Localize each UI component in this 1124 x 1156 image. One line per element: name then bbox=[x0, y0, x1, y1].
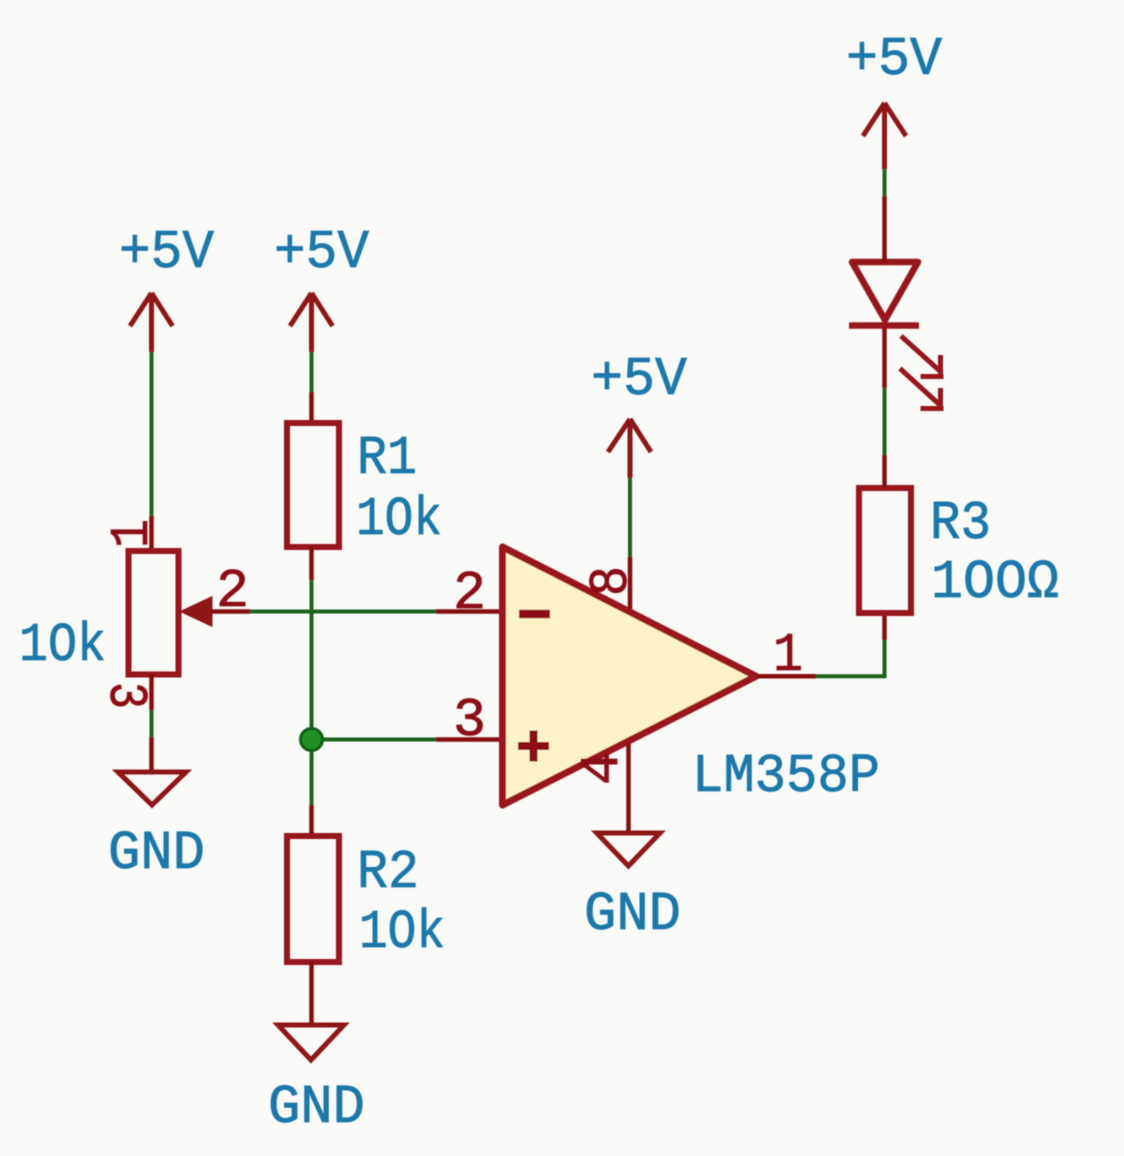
pin 3 of U1 bbox=[436, 737, 503, 742]
potentiometer RV1 wiper arrow bbox=[182, 598, 212, 626]
svg-text:4: 4 bbox=[571, 751, 634, 785]
LED D1 light arrow 1 bbox=[901, 336, 944, 378]
op-amp U1 triangle bbox=[503, 547, 757, 805]
svg-text:+5V: +5V bbox=[591, 348, 687, 411]
wire R1 top bbox=[310, 352, 314, 392]
svg-text:GND: GND bbox=[268, 1076, 365, 1139]
junction node bbox=[301, 729, 323, 751]
pin 2 of R3 bbox=[882, 613, 887, 640]
pin 2 of D1 (cathode) bbox=[882, 325, 887, 388]
power arrow (pot) bbox=[130, 293, 173, 352]
wire pot top bbox=[150, 352, 154, 516]
resistor R2 body bbox=[287, 836, 339, 962]
LED D1 triangle bbox=[852, 262, 918, 320]
pin 8 of U1 bbox=[628, 557, 633, 614]
svg-text:+5V: +5V bbox=[119, 221, 214, 284]
pin 4 of U1 bbox=[626, 738, 631, 833]
svg-text:+5V: +5V bbox=[274, 221, 369, 284]
svg-text:R3: R3 bbox=[930, 492, 991, 555]
pin 2 of R1 bbox=[309, 547, 314, 580]
pin 1 of R3 bbox=[882, 455, 887, 488]
resistor R3 body bbox=[859, 488, 911, 613]
svg-text:GND: GND bbox=[584, 883, 681, 946]
svg-text:LM358P: LM358P bbox=[692, 745, 880, 808]
pin 2 of U1 bbox=[436, 609, 503, 614]
svg-text:R1: R1 bbox=[357, 427, 417, 490]
svg-text:+5V: +5V bbox=[846, 28, 942, 91]
potentiometer RV1 body bbox=[129, 551, 179, 675]
svg-text:2: 2 bbox=[216, 560, 249, 623]
power arrow (LED) bbox=[863, 103, 906, 169]
LED D1 light arrow 2 bbox=[900, 369, 944, 411]
wire op-amp V+ bbox=[628, 478, 632, 557]
svg-text:GND: GND bbox=[108, 822, 205, 885]
wire horizontal (wiper to op-amp in-) bbox=[250, 610, 436, 614]
op-amp plus input marker bbox=[518, 731, 549, 762]
power arrow (R1) bbox=[290, 293, 333, 352]
ground symbol (R2) bbox=[278, 1025, 344, 1060]
ground symbol (pot) bbox=[118, 772, 186, 805]
svg-text:1: 1 bbox=[101, 519, 164, 548]
wire node to pin3 (op-amp) bbox=[312, 738, 437, 742]
wire +5V to LED bbox=[883, 169, 887, 196]
pin 1 of RV1 bbox=[149, 516, 154, 550]
op-amp minus input marker bbox=[519, 610, 550, 619]
ground symbol (op-amp) bbox=[597, 833, 660, 866]
pin 2 of RV1 bbox=[212, 609, 251, 614]
wire LED to R3 bbox=[883, 388, 887, 455]
svg-text:1OOΩ: 1OOΩ bbox=[931, 551, 1059, 614]
pin 1 of U1 (output) bbox=[756, 674, 816, 679]
svg-text:1Ok: 1Ok bbox=[356, 488, 442, 551]
pin 1 of D1 (anode) bbox=[882, 196, 887, 262]
svg-text:8: 8 bbox=[580, 566, 643, 596]
svg-text:1Ok: 1Ok bbox=[359, 901, 445, 964]
wire vertical (R1 to node) bbox=[310, 580, 314, 805]
pin 3 of RV1 bbox=[149, 674, 154, 710]
wire pot bottom bbox=[150, 710, 154, 737]
wire output vertical bbox=[883, 640, 887, 678]
svg-text:R2: R2 bbox=[357, 841, 419, 904]
pin 1 of R1 bbox=[309, 392, 314, 423]
pin 2 of R2 bbox=[309, 962, 314, 1025]
svg-text:3: 3 bbox=[453, 689, 486, 752]
power arrow (op-amp) bbox=[608, 419, 651, 478]
svg-text:2: 2 bbox=[453, 562, 486, 625]
svg-text:3: 3 bbox=[94, 682, 157, 709]
svg-text:1: 1 bbox=[773, 624, 803, 687]
svg-text:1Ok: 1Ok bbox=[19, 614, 106, 677]
LED D1 cathode bar bbox=[849, 322, 919, 329]
pin 1 of R2 bbox=[309, 805, 314, 836]
wire output horizontal bbox=[816, 674, 885, 678]
ground stem (pot) bbox=[149, 737, 154, 770]
resistor R1 body bbox=[287, 423, 339, 547]
